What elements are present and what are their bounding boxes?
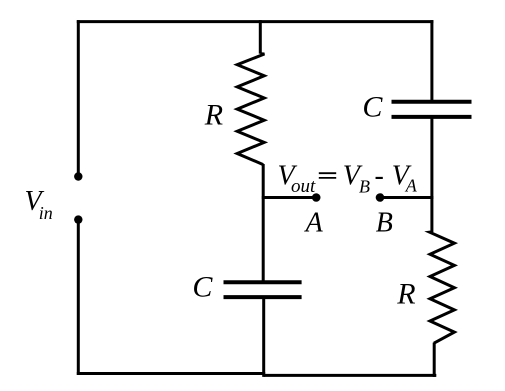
wire: bottom rail right [264,374,437,377]
wire: right column lower stub [433,343,436,377]
capacitor C (right) top plate [392,100,472,104]
capacitor C (middle) top plate [224,280,302,284]
wire: right column upper [430,20,433,102]
svg-text:R: R [204,99,223,132]
wire: left column lower [77,220,80,375]
svg-text:in: in [39,203,53,223]
svg-text:C: C [362,90,383,123]
wire: middle branch top stub [259,20,262,54]
svg-text:B: B [359,176,370,196]
terminal dot: Vin top [74,172,82,180]
svg-text:R: R [396,278,415,311]
wire: top rail [77,20,434,23]
capacitor C (middle) bottom plate [224,295,302,299]
capacitor C (right) bottom plate [392,115,472,119]
svg-text:A: A [304,208,324,239]
node B dot [376,193,385,202]
wire: left column upper [77,20,80,176]
svg-text:out: out [291,176,316,197]
wire: middle branch lower [262,297,265,377]
terminal dot: Vin bottom [74,215,82,223]
wire: node B stub [380,196,433,199]
node A dot [312,193,321,202]
wire: bottom rail left [77,372,265,375]
wire: right column mid [430,117,433,232]
resistor R (middle branch) [237,54,264,165]
label Vin [25,186,53,223]
wire: node A stub [262,196,316,199]
svg-text:A: A [405,176,418,196]
label equation Vout = VB - VA [278,161,418,197]
resistor R (right branch) [430,232,455,343]
wire: middle branch between resistor and capacitor [262,164,265,282]
svg-text:-: - [375,161,384,192]
svg-text:C: C [192,271,213,304]
svg-text:B: B [376,207,393,238]
